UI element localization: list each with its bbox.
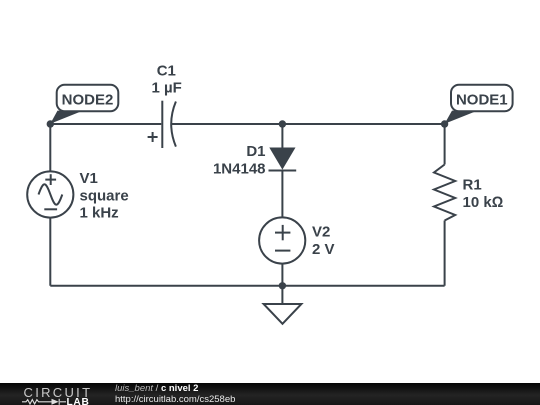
- svg-text:1 kHz: 1 kHz: [80, 205, 119, 222]
- svg-text:D1: D1: [246, 143, 265, 160]
- svg-text:NODE2: NODE2: [62, 92, 114, 109]
- svg-text:1N4148: 1N4148: [213, 161, 266, 178]
- svg-text:V2: V2: [312, 224, 330, 241]
- svg-text:C1: C1: [157, 62, 176, 79]
- svg-text:LAB: LAB: [67, 397, 90, 405]
- svg-text:10 kΩ: 10 kΩ: [463, 194, 504, 211]
- svg-text:1 µF: 1 µF: [152, 80, 182, 97]
- svg-text:2 V: 2 V: [312, 241, 335, 258]
- svg-text:square: square: [80, 187, 129, 204]
- svg-text:V1: V1: [80, 170, 98, 187]
- svg-text:NODE1: NODE1: [456, 92, 508, 109]
- svg-text:R1: R1: [463, 177, 482, 194]
